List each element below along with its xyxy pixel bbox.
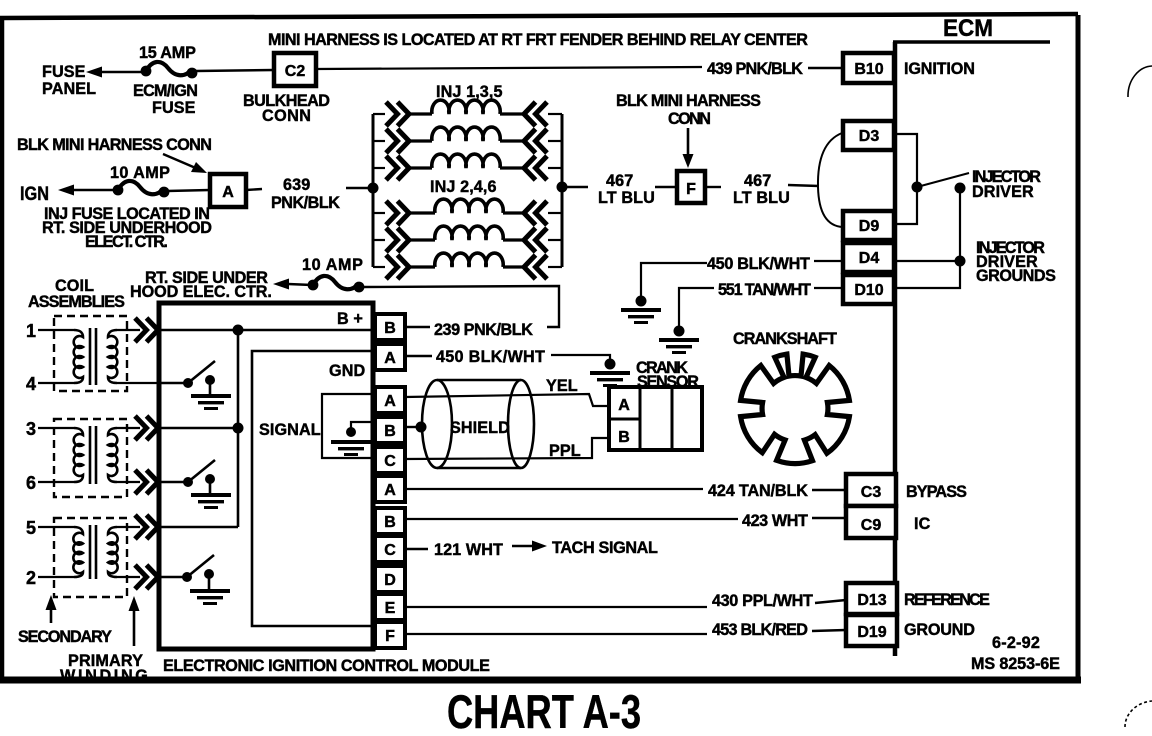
wire primary 1 to chevron xyxy=(117,329,140,331)
wire primary 4 into module xyxy=(117,382,161,384)
module pin C (tach) xyxy=(375,536,405,562)
injector rows xyxy=(373,100,562,279)
switch 1 (coil 1/4 primary) xyxy=(161,361,231,410)
node bus mid xyxy=(233,423,244,434)
svg-text:ELECTRONIC IGNITION CONTROL MO: ELECTRONIC IGNITION CONTROL MODULE xyxy=(163,657,490,675)
svg-text:6: 6 xyxy=(26,473,36,493)
electronic ignition control module box xyxy=(159,303,373,649)
svg-text:C3: C3 xyxy=(861,484,882,501)
svg-text:551 TAN/WHT: 551 TAN/WHT xyxy=(718,281,811,299)
svg-text:F: F xyxy=(686,181,696,198)
page curl artifact bottom right xyxy=(1125,701,1152,727)
wire fuse right then down to B pin wire xyxy=(362,286,559,327)
pointer arrow to connector A xyxy=(163,154,198,169)
wire plug 4 xyxy=(38,382,74,384)
svg-text:HOOD ELEC. CTR.: HOOD ELEC. CTR. xyxy=(130,283,272,301)
wire row3 chevron to bus xyxy=(161,427,238,429)
B+ internal bus xyxy=(237,330,240,527)
module pin B (crank B) xyxy=(375,417,405,443)
chevron into module row1 xyxy=(135,318,158,342)
ECM pin D13 xyxy=(846,583,897,614)
ECM pin D9 xyxy=(843,211,894,240)
module pin C (crank C) xyxy=(375,447,405,473)
svg-text:SECONDARY: SECONDARY xyxy=(18,628,112,646)
brace to D3 and D9 xyxy=(818,133,843,227)
node at D4 wire xyxy=(955,256,966,267)
node on bridge xyxy=(912,182,923,193)
svg-text:C9: C9 xyxy=(861,517,882,534)
injector row 6 xyxy=(373,253,562,279)
coil assembly 1/4 xyxy=(54,316,127,391)
arrow PRIMARY WINDING xyxy=(133,607,136,646)
wire label to D4 xyxy=(814,260,843,262)
wire plug 5 xyxy=(38,526,74,528)
svg-text:PPL: PPL xyxy=(549,442,581,460)
crankshaft reluctor wheel xyxy=(741,354,850,463)
svg-text:D3: D3 xyxy=(859,128,880,145)
svg-text:YEL: YEL xyxy=(546,377,578,395)
svg-text:121 WHT: 121 WHT xyxy=(434,541,503,559)
pointer to INJECTOR DRIVER xyxy=(917,173,969,187)
wire pin F to 453 label xyxy=(405,633,707,635)
ground for module pin A xyxy=(590,371,630,387)
crank sensor connector xyxy=(609,387,702,450)
svg-text:A: A xyxy=(384,393,396,410)
wire primary 3 to chevron xyxy=(117,427,140,429)
svg-text:MINI HARNESS IS LOCATED AT RT: MINI HARNESS IS LOCATED AT RT FRT FENDER… xyxy=(268,31,808,49)
svg-text:INJ 1,3,5: INJ 1,3,5 xyxy=(436,83,503,101)
module pin A (crank A) xyxy=(375,387,405,413)
svg-text:439 PNK/BLK: 439 PNK/BLK xyxy=(707,60,803,78)
shielded cable cylinder xyxy=(422,380,534,468)
svg-text:LT BLU: LT BLU xyxy=(733,189,790,207)
module pin F xyxy=(375,622,405,648)
svg-text:639: 639 xyxy=(283,176,310,194)
fuse 10 AMP INJ xyxy=(113,181,170,197)
ECM pin C9 xyxy=(846,506,896,538)
svg-text:467: 467 xyxy=(606,172,633,190)
svg-text:467: 467 xyxy=(744,172,771,190)
wire pin C3p to 121 label xyxy=(405,548,428,550)
wire PPL pin C to crank sensor xyxy=(405,438,609,459)
wire pin E to 430 label xyxy=(405,606,707,608)
wire injector driver grounds vertical xyxy=(894,188,960,288)
svg-text:GROUND: GROUND xyxy=(904,621,975,639)
wire pin B to 239 label xyxy=(405,326,430,328)
svg-text:D13: D13 xyxy=(857,592,886,609)
svg-text:PNK/BLK: PNK/BLK xyxy=(271,194,340,212)
chevron into module row5 xyxy=(135,515,158,539)
wire to D3/D9 brace xyxy=(788,185,819,186)
injector row 4 xyxy=(373,199,562,225)
wire primary 5 to chevron xyxy=(117,526,140,528)
svg-text:CRANKSHAFT: CRANKSHAFT xyxy=(733,330,837,348)
wire pin A3 to 424 label xyxy=(405,488,703,490)
arrow to label xyxy=(273,279,289,290)
svg-text:DRIVER: DRIVER xyxy=(972,183,1034,201)
node junction left injector bus xyxy=(368,183,379,194)
svg-text:GROUNDS: GROUNDS xyxy=(976,267,1056,285)
svg-text:B: B xyxy=(384,514,396,531)
svg-text:4: 4 xyxy=(26,374,36,394)
svg-text:A: A xyxy=(618,397,630,414)
module pin E xyxy=(375,594,405,620)
svg-text:TACH SIGNAL: TACH SIGNAL xyxy=(552,539,658,557)
svg-text:B: B xyxy=(384,320,396,337)
B+ wire row1 to pin B xyxy=(161,329,375,331)
arrow to fuse panel xyxy=(86,67,102,78)
svg-text:LT BLU: LT BLU xyxy=(598,189,655,207)
svg-text:D: D xyxy=(384,572,396,589)
svg-text:3: 3 xyxy=(26,419,36,439)
wire pin A to 450 label xyxy=(405,355,432,357)
svg-text:450 BLK/WHT: 450 BLK/WHT xyxy=(436,348,545,366)
coil assembly 3/6 xyxy=(54,419,127,497)
wire 450 BLK/WHT to ground xyxy=(641,263,707,296)
svg-text:CONN: CONN xyxy=(668,110,711,128)
wire primary 2 to chevron xyxy=(117,576,140,578)
svg-text:PANEL: PANEL xyxy=(42,80,96,98)
ECM pin D10 xyxy=(843,275,894,304)
wire row5 chevron to bus xyxy=(161,526,238,528)
wire pin B3 to 423 label xyxy=(405,518,738,520)
svg-text:E: E xyxy=(385,600,396,617)
fuse 15 AMP ECM/IGN xyxy=(141,62,198,78)
node shield connection xyxy=(416,422,427,433)
switch 2 (coil 3/6 primary) xyxy=(161,460,231,509)
core xyxy=(89,328,92,385)
injector bank left bus wire xyxy=(372,114,375,267)
svg-text:ASSEMBLIES: ASSEMBLIES xyxy=(28,293,125,311)
svg-text:BLK MINI HARNESS CONN: BLK MINI HARNESS CONN xyxy=(17,136,212,154)
primary winding xyxy=(108,330,117,383)
svg-text:C: C xyxy=(384,542,396,559)
arrow down to F xyxy=(687,128,690,156)
svg-text:REFERENCE: REFERENCE xyxy=(904,591,990,609)
ECM module boundary xyxy=(893,15,1050,656)
switch 3 (coil 5/2 primary) xyxy=(161,555,230,605)
ECM pin B10 xyxy=(843,53,894,83)
svg-text:430 PPL/WHT: 430 PPL/WHT xyxy=(712,592,813,610)
wire bridge D3-D9 on right xyxy=(894,134,917,224)
svg-text:D9: D9 xyxy=(859,218,880,235)
wire plug 2 xyxy=(38,576,74,578)
signal ground xyxy=(331,422,375,456)
wire shield drain from pin B xyxy=(405,426,418,428)
wire plug 6 xyxy=(38,481,74,483)
wire 450 to ground by crank sensor xyxy=(551,355,610,360)
wire D4 to node xyxy=(894,260,960,262)
injector row 3 xyxy=(373,154,562,180)
svg-text:MS 8253-6E: MS 8253-6E xyxy=(971,655,1060,673)
secondary winding xyxy=(74,330,83,383)
wire label to C3 xyxy=(812,489,846,491)
svg-text:10 AMP: 10 AMP xyxy=(302,256,363,274)
wire fuse to A xyxy=(167,190,210,191)
ground for 450 BLK/WHT xyxy=(621,308,661,324)
injector row 2 xyxy=(373,127,562,153)
module pin A (bypass) xyxy=(375,476,405,502)
svg-text:423 WHT: 423 WHT xyxy=(742,512,808,530)
wire plug 1 xyxy=(38,329,74,331)
svg-text:WINDING: WINDING xyxy=(60,667,148,685)
connector C2 xyxy=(274,53,316,86)
wire plug 3 xyxy=(38,427,74,429)
svg-text:A: A xyxy=(384,482,396,499)
ECM pin C3 xyxy=(846,474,896,506)
wire A to label xyxy=(246,189,262,190)
wire 439 PNK/BLK from C2 to label xyxy=(316,67,702,69)
svg-text:C2: C2 xyxy=(285,63,306,80)
svg-text:FUSE: FUSE xyxy=(42,63,86,81)
svg-text:D19: D19 xyxy=(857,624,886,641)
svg-text:B +: B + xyxy=(337,310,363,328)
wire right bus to 467 label xyxy=(567,186,588,188)
svg-text:10 AMP: 10 AMP xyxy=(110,164,170,182)
svg-text:CHART A-3: CHART A-3 xyxy=(447,685,641,736)
connector A xyxy=(210,174,246,207)
connector F xyxy=(677,171,705,203)
ECM pin D3 xyxy=(843,121,894,150)
wire label to C9 xyxy=(812,517,846,519)
ground for 551 TAN/WHT xyxy=(659,338,699,354)
chevron into module row2 xyxy=(135,565,158,589)
node bus top xyxy=(233,325,244,336)
svg-text:SHIELD: SHIELD xyxy=(450,419,510,437)
svg-text:D10: D10 xyxy=(854,282,883,299)
svg-text:IGNITION: IGNITION xyxy=(904,60,975,78)
svg-text:A: A xyxy=(222,184,234,201)
fuse 10 AMP ign feed xyxy=(308,276,365,292)
svg-text:239 PNK/BLK: 239 PNK/BLK xyxy=(434,321,533,339)
chevron into module row3 xyxy=(135,416,158,440)
svg-text:BLK MINI HARNESS: BLK MINI HARNESS xyxy=(616,92,761,110)
page curl artifact top right xyxy=(1128,66,1152,97)
wire 551 TAN/WHT to ground xyxy=(679,288,714,326)
wire label to injector bus xyxy=(346,187,374,189)
svg-text:IC: IC xyxy=(914,515,931,533)
signal ground bracket box xyxy=(322,394,375,458)
svg-text:ECM: ECM xyxy=(943,15,993,42)
wire label to D19 xyxy=(812,630,846,631)
svg-text:15 AMP: 15 AMP xyxy=(139,44,196,62)
svg-text:IGN: IGN xyxy=(20,184,49,205)
svg-text:5: 5 xyxy=(26,518,36,538)
wire F to 467 label xyxy=(705,186,721,188)
injector row 1 xyxy=(373,100,562,126)
injector bank right bus wire xyxy=(561,114,564,267)
chevron into module row6 xyxy=(135,470,158,494)
wire primary 6 to chevron xyxy=(117,481,140,483)
svg-text:424 TAN/BLK: 424 TAN/BLK xyxy=(708,482,808,500)
ECM pin D19 xyxy=(846,615,897,646)
svg-text:D4: D4 xyxy=(859,250,880,267)
svg-text:2: 2 xyxy=(26,568,36,588)
svg-text:ELECT. CTR.: ELECT. CTR. xyxy=(85,233,168,251)
arrow SECONDARY xyxy=(50,605,53,623)
arrow to IGN xyxy=(58,185,74,196)
svg-text:B: B xyxy=(384,423,396,440)
svg-text:C: C xyxy=(384,453,396,470)
svg-text:ECM/IGN: ECM/IGN xyxy=(133,82,198,100)
svg-text:450 BLK/WHT: 450 BLK/WHT xyxy=(707,255,810,273)
svg-text:1: 1 xyxy=(26,321,36,341)
wire label to D13 xyxy=(815,600,846,603)
svg-text:SIGNAL: SIGNAL xyxy=(259,421,321,439)
svg-text:GND: GND xyxy=(329,362,365,380)
wire to F xyxy=(655,186,677,188)
wire YEL pin A to crank sensor xyxy=(405,394,609,406)
wire label to D10 xyxy=(814,287,843,289)
svg-text:CONN: CONN xyxy=(262,107,311,125)
svg-text:B: B xyxy=(618,429,630,446)
module pin A (GND) xyxy=(375,344,405,370)
svg-text:F: F xyxy=(385,628,395,645)
svg-text:FUSE: FUSE xyxy=(152,99,196,117)
svg-text:BYPASS: BYPASS xyxy=(906,483,967,501)
node injector driver grounds top xyxy=(955,183,966,194)
inner signal box xyxy=(252,351,374,626)
svg-text:A: A xyxy=(384,350,396,367)
wire label to B10 xyxy=(808,67,843,69)
ECM pin D4 xyxy=(843,243,894,272)
injector row 5 xyxy=(373,226,562,252)
wire fuse to C2 xyxy=(196,70,274,71)
svg-text:INJ 2,4,6: INJ 2,4,6 xyxy=(430,178,497,196)
module pin B (B+) xyxy=(375,314,405,340)
coil assembly 5/2 xyxy=(54,518,127,597)
svg-text:453 BLK/RED: 453 BLK/RED xyxy=(712,621,808,639)
arrow tach xyxy=(512,545,533,548)
node junction right injector bus xyxy=(557,182,568,193)
svg-text:B10: B10 xyxy=(854,61,883,78)
module pin B (IC) xyxy=(375,508,405,534)
module pin D xyxy=(375,566,405,592)
svg-text:6-2-92: 6-2-92 xyxy=(992,634,1040,652)
